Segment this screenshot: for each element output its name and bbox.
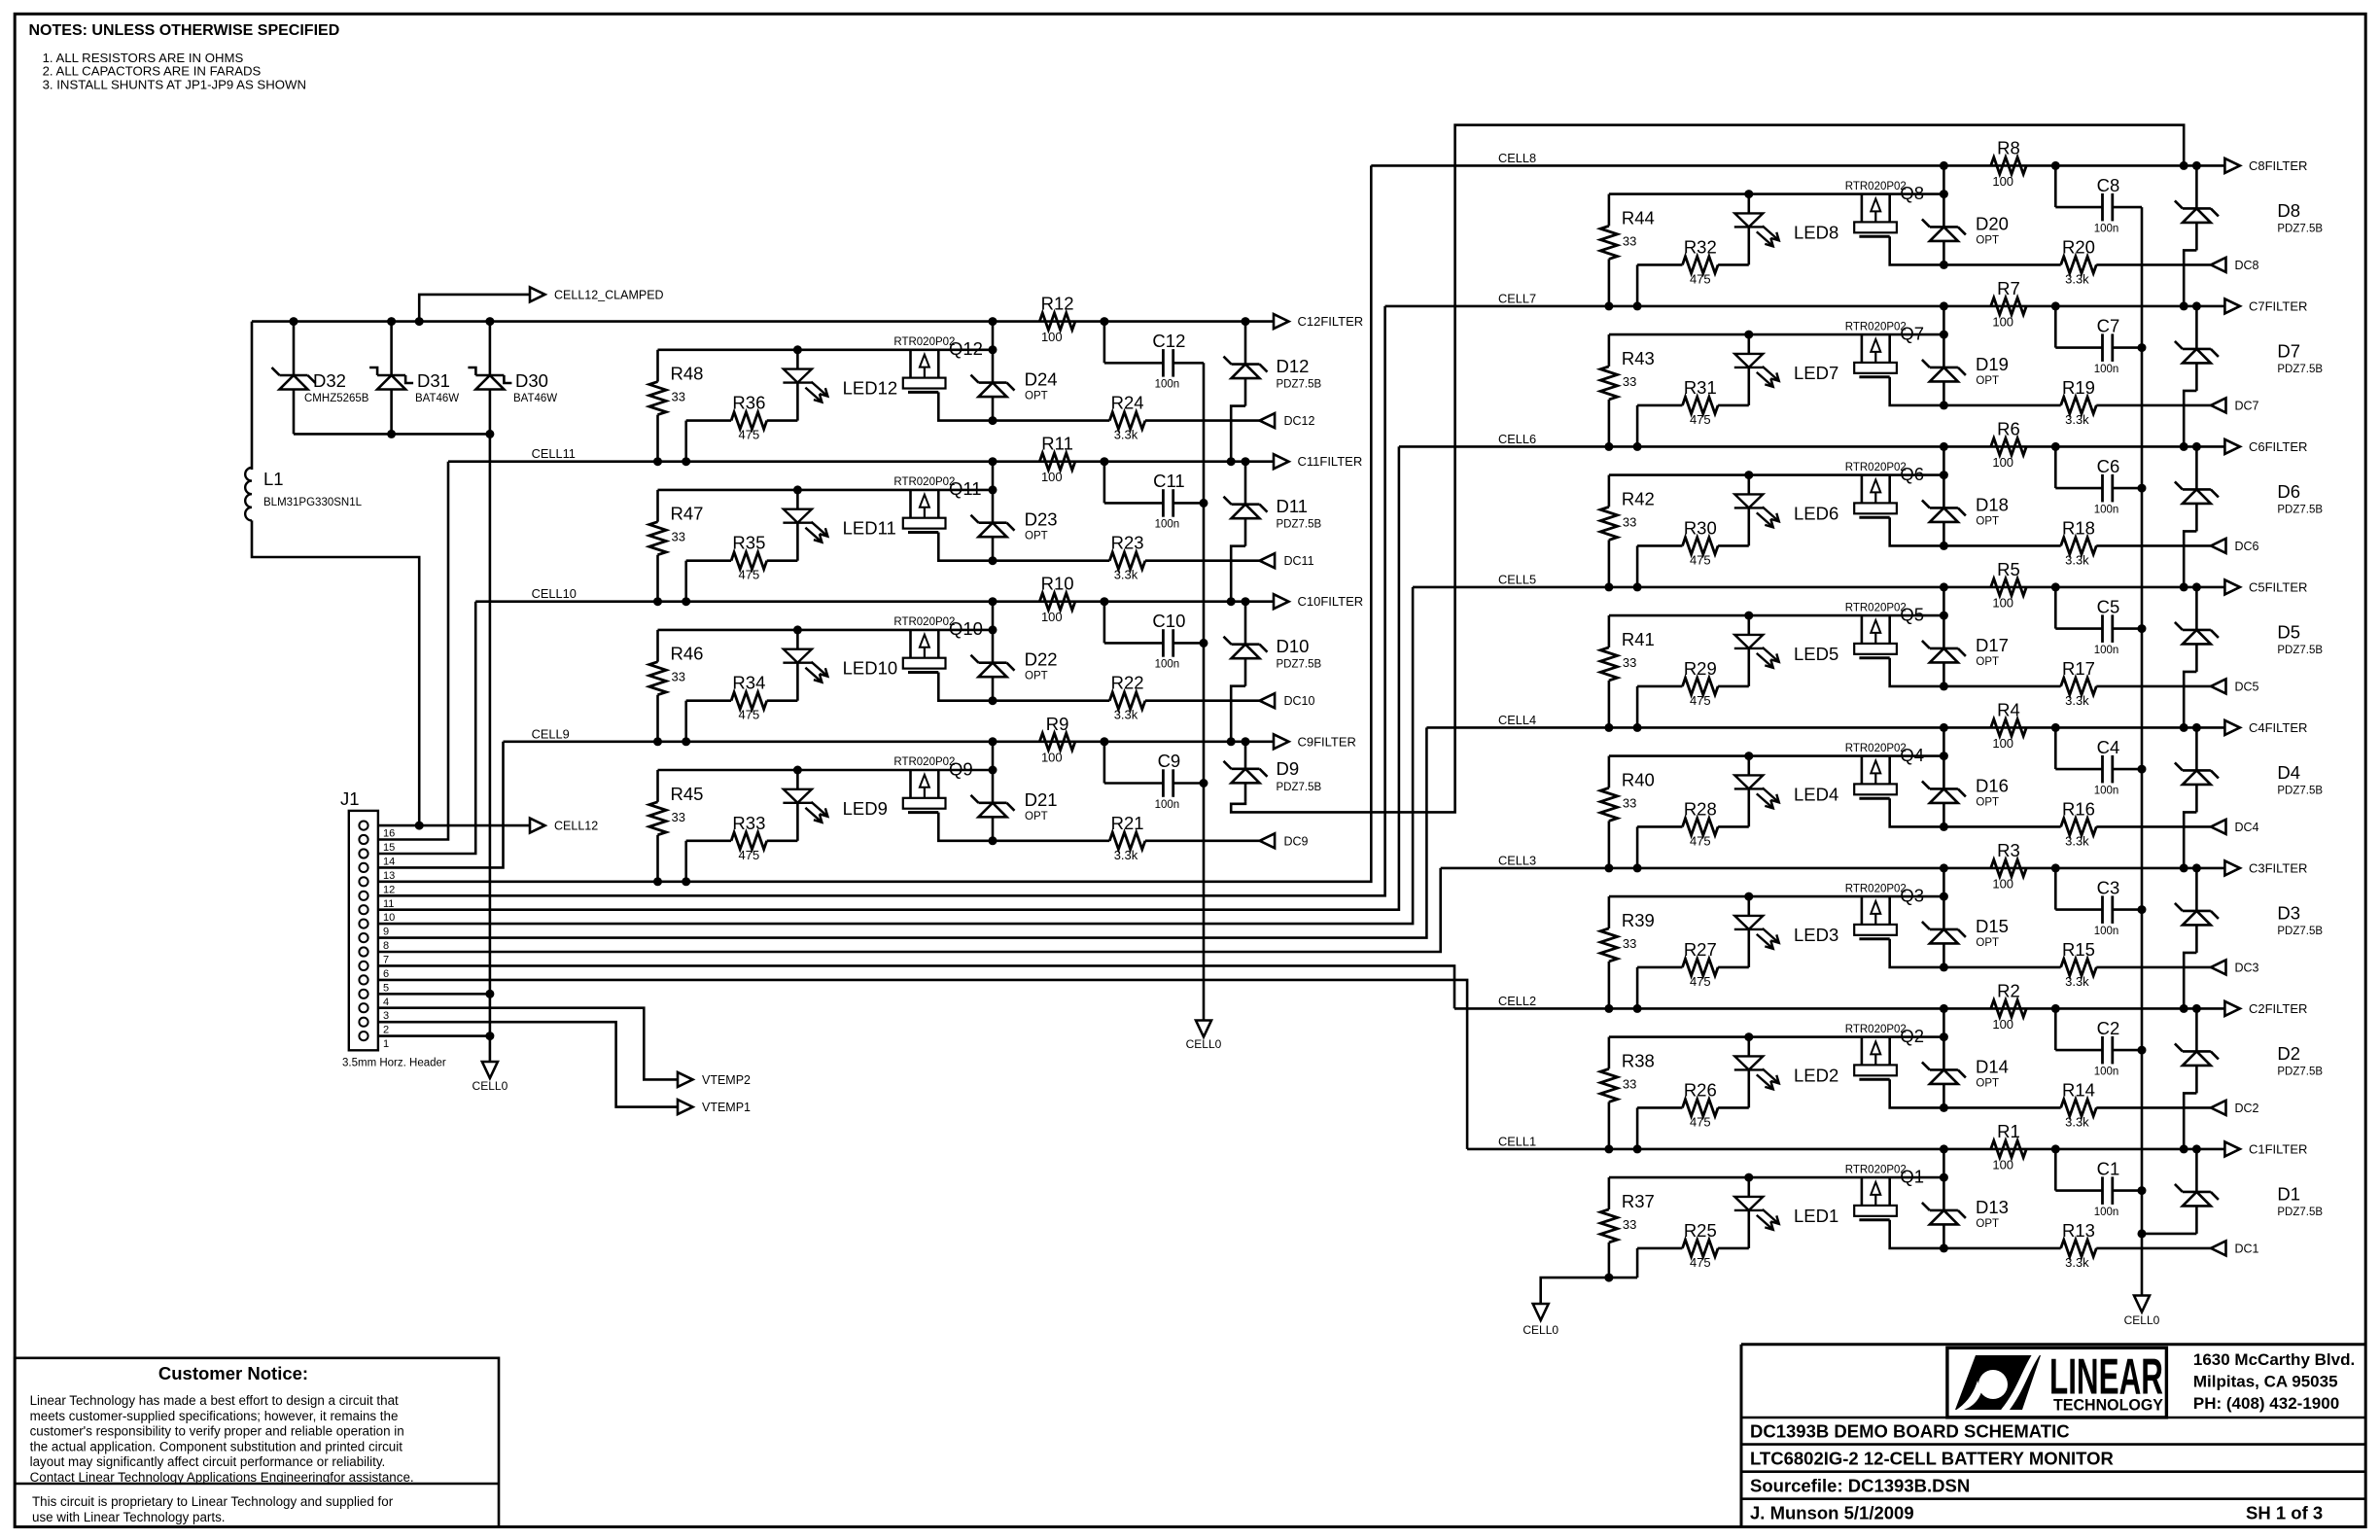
svg-text:R11: R11 [1041,434,1073,454]
svg-text:R10: R10 [1041,574,1074,594]
svg-text:D2: D2 [2277,1043,2300,1064]
svg-text:Customer Notice:: Customer Notice: [158,1363,308,1383]
wire gate rail [1609,1176,1944,1179]
svg-text:R45: R45 [671,784,704,804]
svg-text:100n: 100n [1155,799,1180,811]
svg-text:R26: R26 [1684,1079,1717,1100]
svg-text:33: 33 [1623,936,1636,951]
resistor R46 [649,630,704,742]
svg-text:CELL3: CELL3 [1498,853,1536,867]
resistor R39 [1600,896,1655,1008]
junction [1940,401,1948,409]
svg-text:R21: R21 [1111,813,1144,833]
wire pin4 [378,993,490,996]
junction [1604,863,1613,872]
wire [1942,1149,1945,1177]
junction [1940,471,1948,479]
zener D7 [2175,306,2323,391]
resistor R31 [1637,377,1749,447]
svg-text:CELL10: CELL10 [532,586,577,601]
junction [1604,723,1613,732]
svg-text:PDZ7.5B: PDZ7.5B [2277,645,2323,656]
junction [1940,542,1948,550]
svg-text:C11: C11 [1153,471,1185,491]
svg-text:C9: C9 [1158,751,1181,771]
svg-text:13: 13 [383,870,395,882]
svg-text:R14: R14 [2062,1079,2095,1100]
junction [1633,863,1642,872]
wire zener anode jog [2184,531,2196,587]
svg-text:R17: R17 [2062,658,2095,679]
svg-text:RTR020P02: RTR020P02 [1845,743,1907,754]
svg-text:475: 475 [1690,1255,1711,1270]
junction [1940,331,1948,339]
svg-text:DC2: DC2 [2235,1102,2259,1115]
svg-text:meets customer-supplied specif: meets customer-supplied specifications; … [30,1409,399,1423]
transistor Q7 [1845,321,1924,376]
junction [2180,1144,2188,1153]
svg-text:C11FILTER: C11FILTER [1298,454,1363,469]
resistor R24 [993,393,1260,442]
svg-text:D20: D20 [1976,213,2009,233]
resistor R25 [1637,1220,1749,1277]
svg-text:100: 100 [1992,1017,2013,1032]
junction [1633,1144,1642,1153]
junction [2192,442,2201,451]
junction [1242,737,1250,746]
svg-text:RTR020P02: RTR020P02 [893,756,955,768]
LED LED5 [1734,615,1838,686]
svg-text:D12: D12 [1277,356,1310,376]
wire [1890,939,1944,967]
svg-text:D17: D17 [1976,635,2009,655]
svg-text:100: 100 [1992,736,2013,751]
svg-text:R12: R12 [1041,294,1074,314]
svg-text:RTR020P02: RTR020P02 [1845,883,1907,894]
resistor R16 [1943,798,2211,848]
wire [1890,1079,1944,1107]
zener D21 [971,770,1058,841]
resistor R14 [1943,1079,2211,1129]
junction [485,430,494,438]
wire [1942,446,1945,474]
svg-text:D3: D3 [2277,902,2300,923]
svg-text:CELL0: CELL0 [472,1079,508,1093]
svg-text:BAT46W: BAT46W [513,393,557,404]
wire pin2 VTEMP1 [378,1022,678,1106]
customer notice box [15,1358,499,1527]
resistor R36 [686,393,798,462]
junction [1100,597,1108,606]
transistor Q11 [893,476,981,532]
svg-text:CELL2: CELL2 [1498,994,1536,1008]
junction [989,696,997,705]
svg-text:PDZ7.5B: PDZ7.5B [2277,223,2323,234]
svg-text:L1: L1 [263,469,284,489]
junction [1604,442,1613,451]
svg-text:100: 100 [1992,455,2013,470]
svg-text:TECHNOLOGY: TECHNOLOGY [2053,1396,2164,1415]
junction [2138,905,2147,914]
wire gate rail [1609,754,1944,757]
junction [2180,301,2188,310]
resistor R7 [1991,278,2027,330]
junction [653,597,662,606]
resistor R37 [1600,1177,1655,1277]
zener D13 [1922,1177,2009,1248]
junction [1744,1032,1753,1041]
svg-text:DC8: DC8 [2235,259,2259,272]
svg-text:DC3: DC3 [2235,961,2259,974]
transistor Q1 [1845,1164,1924,1219]
svg-text:D16: D16 [1976,775,2009,795]
note 2 [43,64,262,79]
junction [2192,863,2201,872]
zener D8 [2175,165,2323,250]
port DC10 [1260,693,1315,708]
svg-text:RTR020P02: RTR020P02 [1845,602,1907,613]
svg-text:D15: D15 [1976,916,2009,936]
svg-text:C2FILTER: C2FILTER [2249,1001,2307,1016]
wire CELL11 rail [448,460,1274,463]
port C3FILTER [2224,860,2307,875]
wire CELL10 rail [475,600,1274,603]
svg-text:LED8: LED8 [1794,222,1838,242]
junction [793,345,802,354]
wire CELL4 rail [1426,726,2224,729]
node CELL2 [1498,994,1536,1008]
svg-text:3.3k: 3.3k [2065,1114,2089,1129]
svg-text:C2: C2 [2097,1018,2120,1038]
svg-text:R37: R37 [1622,1191,1655,1211]
svg-text:C4: C4 [2097,737,2120,757]
svg-text:RTR020P02: RTR020P02 [1845,321,1907,332]
svg-text:CELL0: CELL0 [2124,1313,2160,1327]
svg-text:100: 100 [1992,174,2013,189]
svg-text:R36: R36 [732,393,765,413]
node CELL4 [1498,713,1536,727]
svg-text:PDZ7.5B: PDZ7.5B [2277,1066,2323,1077]
svg-text:D31: D31 [417,370,450,391]
wire CELL5 rail [1413,586,2224,589]
svg-text:R46: R46 [671,644,704,664]
svg-text:475: 475 [1690,412,1711,427]
svg-text:D32: D32 [313,370,346,391]
resistor R5 [1991,559,2027,611]
svg-text:This circuit is proprietary to: This circuit is proprietary to Linear Te… [32,1494,394,1509]
svg-text:D4: D4 [2277,762,2300,783]
resistor R35 [686,533,798,602]
zener D2 [2175,1008,2323,1093]
capacitor C12 [1104,322,1204,391]
wire CELL3 rail [1441,867,2225,870]
junction [1100,317,1108,326]
svg-text:100n: 100n [1155,659,1180,671]
LED LED10 [783,630,897,701]
svg-text:Q12: Q12 [949,338,983,359]
capacitor C11 [1104,462,1204,531]
svg-text:OPT: OPT [1025,391,1048,402]
wire zener anode jog [1231,546,1245,602]
junction [1940,822,1948,831]
svg-text:33: 33 [672,530,685,544]
wire pin10 CELL6 [378,446,1399,909]
junction [793,766,802,775]
junction [2138,1186,2147,1195]
svg-text:33: 33 [1623,374,1636,389]
junction [1100,457,1108,466]
svg-text:D18: D18 [1976,494,2009,514]
svg-text:100n: 100n [1155,379,1180,391]
svg-text:R48: R48 [671,364,704,384]
junction [1744,471,1753,479]
junction [2051,582,2060,591]
svg-text:C1: C1 [2097,1158,2120,1178]
svg-text:100n: 100n [2094,223,2119,234]
LED LED4 [1734,756,1838,827]
svg-text:Q5: Q5 [1900,604,1924,624]
svg-text:OPT: OPT [1976,515,1999,527]
junction [290,317,298,326]
svg-text:Sourcefile: DC1393B.DSN: Sourcefile: DC1393B.DSN [1750,1476,1970,1496]
svg-text:OPT: OPT [1976,234,1999,246]
svg-text:C6: C6 [2097,456,2120,476]
transistor Q8 [1845,181,1924,236]
capacitor C4 [2055,727,2142,796]
wire gate rail [1609,192,1944,195]
port DC4 [2211,820,2259,834]
junction [989,457,997,466]
svg-text:R35: R35 [732,533,765,553]
zener D1 [2175,1149,2323,1234]
wire zener anode jog [2184,672,2196,728]
wire [992,462,995,490]
resistor R26 [1637,1079,1749,1149]
svg-text:RTR020P02: RTR020P02 [1845,1164,1907,1175]
wire CELL0 bus left [1203,363,1206,1020]
svg-text:D7: D7 [2277,340,2300,361]
wire pin8 CELL4 [378,727,1427,937]
wire CELL0 bus right [2141,207,2144,1295]
resistor R42 [1600,475,1655,587]
svg-text:D8: D8 [2277,200,2300,221]
svg-text:3: 3 [383,1010,389,1022]
node CELL9 [532,726,570,741]
junction [2180,582,2188,591]
resistor R19 [1943,377,2211,427]
port C9FILTER [1274,734,1356,749]
capacitor C8 [2055,165,2142,234]
zener D3 [2175,868,2323,953]
junction [2051,1004,2060,1013]
svg-text:3.3k: 3.3k [2065,1255,2089,1270]
svg-text:OPT: OPT [1025,811,1048,822]
wire [252,520,419,825]
svg-text:LED6: LED6 [1794,503,1838,523]
junction [1940,1103,1948,1112]
svg-text:R23: R23 [1111,533,1144,553]
svg-text:D13: D13 [1976,1197,2009,1217]
svg-text:Q3: Q3 [1900,885,1924,905]
junction [1200,779,1208,787]
junction [1200,499,1208,507]
junction [682,877,690,886]
junction [2138,624,2147,633]
junction [1242,597,1250,606]
junction [793,625,802,634]
junction [1940,442,1948,451]
svg-text:R16: R16 [2062,798,2095,819]
junction [1940,1032,1948,1041]
title row 4 [1750,1503,2323,1523]
svg-text:100: 100 [1992,876,2013,891]
ground CELL0 [472,1062,508,1093]
junction [387,430,396,438]
zener D22 [971,630,1058,701]
junction [989,416,997,425]
svg-text:475: 475 [1690,693,1711,708]
svg-text:Contact Linear Technology Appl: Contact Linear Technology Applications E… [30,1470,414,1485]
svg-text:R41: R41 [1622,629,1655,649]
svg-text:D11: D11 [1277,496,1309,516]
wire gate rail [658,348,994,351]
junction [1604,1144,1613,1153]
svg-text:475: 475 [739,568,760,582]
resistor R30 [1637,517,1749,587]
resistor R10 [1039,574,1075,625]
junction [989,317,997,326]
zener D17 [1922,615,2009,686]
transistor Q12 [893,336,983,392]
junction [1940,1004,1948,1013]
svg-text:R15: R15 [2062,939,2095,960]
svg-text:PDZ7.5B: PDZ7.5B [1277,379,1322,391]
port DC8 [2211,258,2259,272]
wire gate rail [1609,333,1944,336]
title block frame [1741,1345,2365,1527]
port C6FILTER [2224,439,2307,454]
resistor R28 [1637,798,1749,868]
resistor R13 [1943,1220,2211,1270]
junction [653,457,662,466]
LED LED3 [1734,896,1838,967]
port DC1 [2211,1241,2259,1255]
junction [793,485,802,494]
port C11FILTER [1274,454,1362,469]
svg-text:LED5: LED5 [1794,644,1838,664]
wire zener anode jog [2184,1093,2196,1149]
junction [2138,1046,2147,1055]
capacitor C6 [2055,446,2142,515]
svg-text:CELL12_CLAMPED: CELL12_CLAMPED [554,288,664,301]
junction [989,766,997,775]
wire [1942,727,1945,755]
svg-text:C6FILTER: C6FILTER [2249,439,2307,454]
junction [1744,190,1753,198]
junction [1604,1274,1613,1282]
svg-text:4: 4 [383,997,389,1008]
schottky D31 [369,322,459,435]
svg-text:DC1: DC1 [2235,1242,2259,1255]
wire D1 anode to CELL0 [2142,1233,2196,1236]
svg-text:475: 475 [1690,833,1711,848]
node CELL6 [1498,432,1536,446]
resistor R2 [1991,980,2027,1032]
svg-text:RTR020P02: RTR020P02 [893,476,955,488]
LED LED8 [1734,194,1838,265]
svg-text:33: 33 [1623,1217,1636,1232]
junction [1940,261,1948,269]
zener D24 [971,350,1058,421]
svg-text:100: 100 [1992,1157,2013,1172]
svg-text:R42: R42 [1622,488,1655,508]
zener D6 [2175,446,2323,531]
svg-text:100: 100 [1041,610,1063,624]
svg-text:3.3k: 3.3k [2065,412,2089,427]
port DC5 [2211,679,2259,693]
junction [485,317,494,326]
svg-text:LED7: LED7 [1794,363,1838,383]
resistor R1 [1991,1121,2027,1172]
svg-text:LED9: LED9 [843,798,888,819]
svg-text:475: 475 [1690,1114,1711,1129]
svg-text:R9: R9 [1046,714,1069,734]
wire zener anode jog [1231,406,1245,462]
junction [2051,863,2060,872]
zener D18 [1922,475,2009,546]
resistor R3 [1991,840,2027,892]
resistor R17 [1943,658,2211,708]
junction [989,737,997,746]
svg-text:D22: D22 [1025,649,1058,670]
junction [1940,190,1948,198]
svg-text:R47: R47 [671,504,704,524]
junction [2138,484,2147,493]
LED LED7 [1734,334,1838,405]
junction [1940,1173,1948,1182]
svg-text:BLM31PG330SN1L: BLM31PG330SN1L [263,497,363,508]
zener D32 [272,322,369,435]
svg-text:CELL7: CELL7 [1498,291,1536,305]
svg-text:33: 33 [672,670,685,684]
svg-text:D5: D5 [2277,621,2300,642]
junction [1227,597,1236,606]
svg-text:D1: D1 [2277,1183,2300,1204]
connector J1 [340,788,446,1069]
svg-text:100n: 100n [2094,1066,2119,1077]
svg-text:1: 1 [383,1038,389,1050]
junction [1940,612,1948,620]
svg-text:Linear Technology has made a b: Linear Technology has made a best effort… [30,1393,399,1408]
svg-text:100n: 100n [2094,364,2119,375]
svg-text:RTR020P02: RTR020P02 [1845,181,1907,192]
junction [1633,723,1642,732]
svg-text:use with Linear Technology par: use with Linear Technology parts. [32,1510,226,1524]
svg-text:16: 16 [383,828,395,840]
notes title [29,22,340,39]
junction [653,737,662,746]
svg-text:475: 475 [1690,552,1711,567]
wire zener anode jog [2184,812,2196,868]
svg-text:DC1393B DEMO BOARD SCHEMATIC: DC1393B DEMO BOARD SCHEMATIC [1750,1421,2070,1442]
junction [1940,1144,1948,1153]
svg-text:100n: 100n [2094,645,2119,656]
svg-text:LED2: LED2 [1794,1065,1838,1085]
svg-text:R1: R1 [1997,1121,2020,1141]
wire [1890,1220,1944,1248]
junction [989,597,997,606]
svg-text:C7: C7 [2097,315,2120,335]
